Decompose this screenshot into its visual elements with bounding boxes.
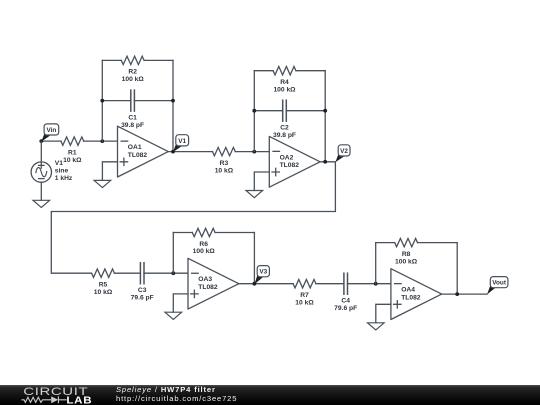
node tag V2 [335, 145, 350, 162]
wire OA2 output [320, 161, 335, 163]
svg-text:C1: C1 [128, 115, 137, 122]
svg-text:100 kΩ: 100 kΩ [122, 76, 145, 83]
wire R3 to OA2 [235, 151, 269, 153]
svg-text:10 kΩ: 10 kΩ [63, 157, 82, 164]
op-amp OA3 [188, 258, 239, 309]
wire C3 to OA3 [144, 272, 188, 274]
svg-text:10 kΩ: 10 kΩ [215, 167, 234, 174]
svg-text:100 kΩ: 100 kΩ [193, 248, 216, 255]
wire OA4 noninverting to ground [376, 304, 391, 323]
junction C1 right [171, 99, 175, 103]
feedback right vertical stage3 [253, 233, 255, 284]
svg-text:TL082: TL082 [401, 295, 421, 302]
wire to R2 [102, 59, 121, 61]
resistor R2 [121, 56, 144, 64]
junction inverting OA2 [252, 150, 256, 154]
wire R2 to right vertical [144, 59, 173, 61]
wire Vin node to R1 [41, 140, 61, 142]
capacitor C4 [344, 273, 348, 294]
node junction Vin [39, 139, 43, 143]
svg-text:39.8 pF: 39.8 pF [273, 132, 296, 139]
wire R1 to OA1 inverting input [84, 140, 118, 142]
svg-text:LAB: LAB [66, 395, 92, 405]
svg-text:Spelieye / HW7P4 filter: Spelieye / HW7P4 filter [116, 385, 216, 394]
svg-text:OA4: OA4 [401, 287, 415, 294]
svg-text:V3: V3 [259, 269, 267, 276]
wire to R6 [173, 232, 192, 234]
ground under V1 [33, 200, 50, 207]
svg-text:10 kΩ: 10 kΩ [94, 289, 113, 296]
wire R8 to right vertical [418, 242, 458, 244]
wire R4 to right vertical [296, 70, 325, 72]
junction C2 right [323, 109, 327, 113]
feedback right vertical stage2 [324, 71, 326, 162]
svg-text:Vout: Vout [492, 280, 507, 287]
svg-text:V1: V1 [178, 138, 186, 145]
wire V1 source bottom [40, 182, 42, 200]
feedback left vertical stage3 [172, 233, 174, 274]
svg-text:sine: sine [55, 167, 69, 174]
svg-text:V1: V1 [55, 160, 63, 167]
wire OA1 output to R3 [168, 151, 212, 153]
junction inverting OA4 [374, 282, 378, 286]
wire C1 right [134, 100, 173, 102]
node tag V1 [173, 135, 189, 152]
resistor R6 [192, 228, 215, 236]
svg-text:C4: C4 [341, 298, 350, 305]
svg-text:OA1: OA1 [128, 144, 142, 151]
svg-text:OA3: OA3 [198, 276, 212, 283]
svg-text:R3: R3 [220, 160, 229, 167]
wire C4 to OA4 [348, 283, 391, 285]
junction inverting OA3 [171, 271, 175, 275]
logo wire resistor [22, 397, 52, 402]
node tag Vin [41, 124, 58, 142]
junction OA4 output feedback [455, 292, 459, 296]
feedback left vertical stage1 [101, 60, 103, 141]
feedback left vertical stage2 [253, 71, 255, 152]
svg-text:1 kHz: 1 kHz [55, 175, 73, 182]
junction OA2 output feedback [323, 160, 327, 164]
svg-text:TL082: TL082 [280, 162, 300, 169]
svg-text:R1: R1 [68, 149, 77, 156]
svg-text:R7: R7 [300, 292, 309, 299]
svg-text:C2: C2 [280, 125, 289, 132]
wire C2 left [254, 110, 282, 112]
wire R6 to right vertical [215, 232, 254, 234]
feedback right vertical stage1 [172, 60, 174, 151]
ground OA4 [368, 323, 385, 330]
wire V2 down and across to stage3 [51, 162, 335, 273]
wire OA1 noninverting to ground [102, 162, 117, 181]
op-amp OA2 [269, 136, 320, 187]
logo diode [51, 396, 58, 403]
wire C2 right [286, 110, 325, 112]
junction C1 left [100, 99, 104, 103]
svg-text:V2: V2 [340, 148, 348, 155]
ground OA2 [246, 191, 263, 198]
svg-text:100 kΩ: 100 kΩ [395, 258, 418, 265]
wire OA3 noninverting to ground [173, 294, 188, 312]
resistor R7 [293, 280, 316, 288]
svg-text:R8: R8 [402, 251, 411, 258]
svg-text:39.8 pF: 39.8 pF [121, 122, 144, 129]
svg-text:R6: R6 [199, 241, 208, 248]
svg-text:R5: R5 [99, 282, 108, 289]
ground OA3 [165, 312, 182, 319]
junction OA1 output feedback [171, 150, 175, 154]
source V1 sine [31, 162, 51, 182]
label V1 sine 1 kHz [55, 160, 73, 182]
wire C1 left [102, 100, 131, 102]
svg-text:TL082: TL082 [198, 284, 218, 291]
node tag Vout [487, 277, 508, 295]
resistor R5 [92, 269, 115, 277]
resistor R1 [61, 137, 84, 145]
wire V1 source top [40, 141, 42, 162]
wire OA3 output to R7 [239, 283, 293, 285]
svg-text:R4: R4 [280, 79, 289, 86]
ground OA1 [94, 180, 111, 187]
svg-text:http://circuitlab.com/c3ee725: http://circuitlab.com/c3ee725 [116, 394, 237, 403]
svg-text:100 kΩ: 100 kΩ [273, 86, 296, 93]
svg-text:R2: R2 [128, 69, 137, 76]
svg-text:C3: C3 [138, 287, 147, 294]
node tag V3 [255, 266, 270, 285]
wire OA2 noninverting to ground [254, 172, 269, 191]
capacitor C2 [283, 100, 287, 121]
resistor R4 [273, 67, 296, 75]
resistor R3 [213, 147, 236, 155]
svg-text:10 kΩ: 10 kΩ [295, 299, 314, 306]
op-amp OA4 [391, 269, 442, 320]
capacitor C1 [131, 90, 135, 111]
feedback left vertical stage4 [375, 243, 377, 284]
wire R7 to C4 [316, 283, 344, 285]
svg-text:OA2: OA2 [280, 154, 294, 161]
junction C2 left [252, 109, 256, 113]
node junction inverting OA1 [100, 139, 104, 143]
wire to R8 [376, 242, 395, 244]
feedback right vertical stage4 [456, 243, 458, 295]
svg-text:79.6 pF: 79.6 pF [131, 295, 154, 302]
junction OA3 output feedback [253, 282, 257, 286]
wire R5 to C3 [114, 272, 140, 274]
svg-text:TL082: TL082 [128, 152, 148, 159]
svg-text:Vin: Vin [46, 127, 56, 134]
wire to R4 [254, 70, 273, 72]
op-amp OA1 [118, 126, 169, 177]
svg-text:79.6 pF: 79.6 pF [334, 305, 357, 312]
wire OA4 output [442, 293, 487, 295]
footer bar [0, 385, 540, 405]
resistor R8 [395, 238, 418, 246]
capacitor C3 [140, 263, 144, 284]
